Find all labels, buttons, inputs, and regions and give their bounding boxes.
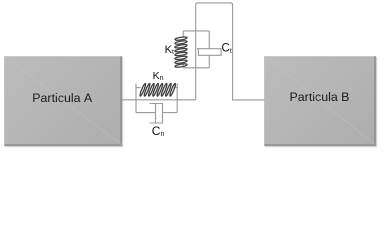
svg-text:Kt: Kt [165,44,174,56]
svg-text:Cn: Cn [152,124,165,138]
svg-text:Ct: Ct [222,43,232,55]
svg-text:Kn: Kn [153,70,164,82]
